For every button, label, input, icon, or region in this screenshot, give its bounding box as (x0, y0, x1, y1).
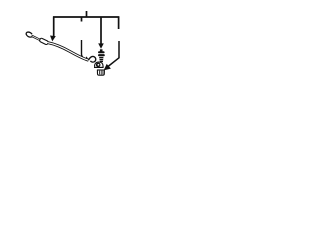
node eyelet ring terminal (25, 31, 33, 38)
node plug thread rib 3 (100, 61, 103, 62)
node plug thread rib 1 (99, 57, 103, 59)
node mid-left leader arrowhead (85, 56, 89, 60)
wire left corner vertical (53, 17, 55, 37)
node mid-right arrowhead (98, 43, 104, 48)
node clamp base line (94, 66, 104, 68)
wire bracket top horizontal line (53, 16, 119, 18)
wire mid-right leader (100, 17, 102, 45)
node plug thread rib 2 (100, 59, 104, 60)
wire right lower leader (108, 41, 119, 67)
node cup hatch 2 (100, 71, 102, 75)
wire terminal shaft (32, 36, 41, 40)
node tick above bracket (86, 11, 88, 17)
wire cable run (48, 43, 89, 61)
wire cable end curl (89, 56, 96, 62)
node clamp ring (96, 63, 101, 68)
node cup hatch 3 (102, 71, 104, 75)
node plug nub (100, 49, 103, 51)
wire right corner stub (118, 17, 120, 30)
node clamp outline (95, 62, 104, 67)
node tick below bracket (81, 17, 83, 22)
node cup body (97, 70, 104, 75)
node right leader arrowhead (104, 64, 111, 71)
node cup hatch 1 (98, 71, 100, 75)
node left arrowhead (50, 36, 56, 42)
node plug body upper band (98, 51, 105, 53)
node ferrule crimp (39, 38, 49, 45)
node plug body lower band (98, 54, 105, 56)
node cup rim (97, 69, 105, 71)
wire mid-left leader (82, 40, 87, 60)
